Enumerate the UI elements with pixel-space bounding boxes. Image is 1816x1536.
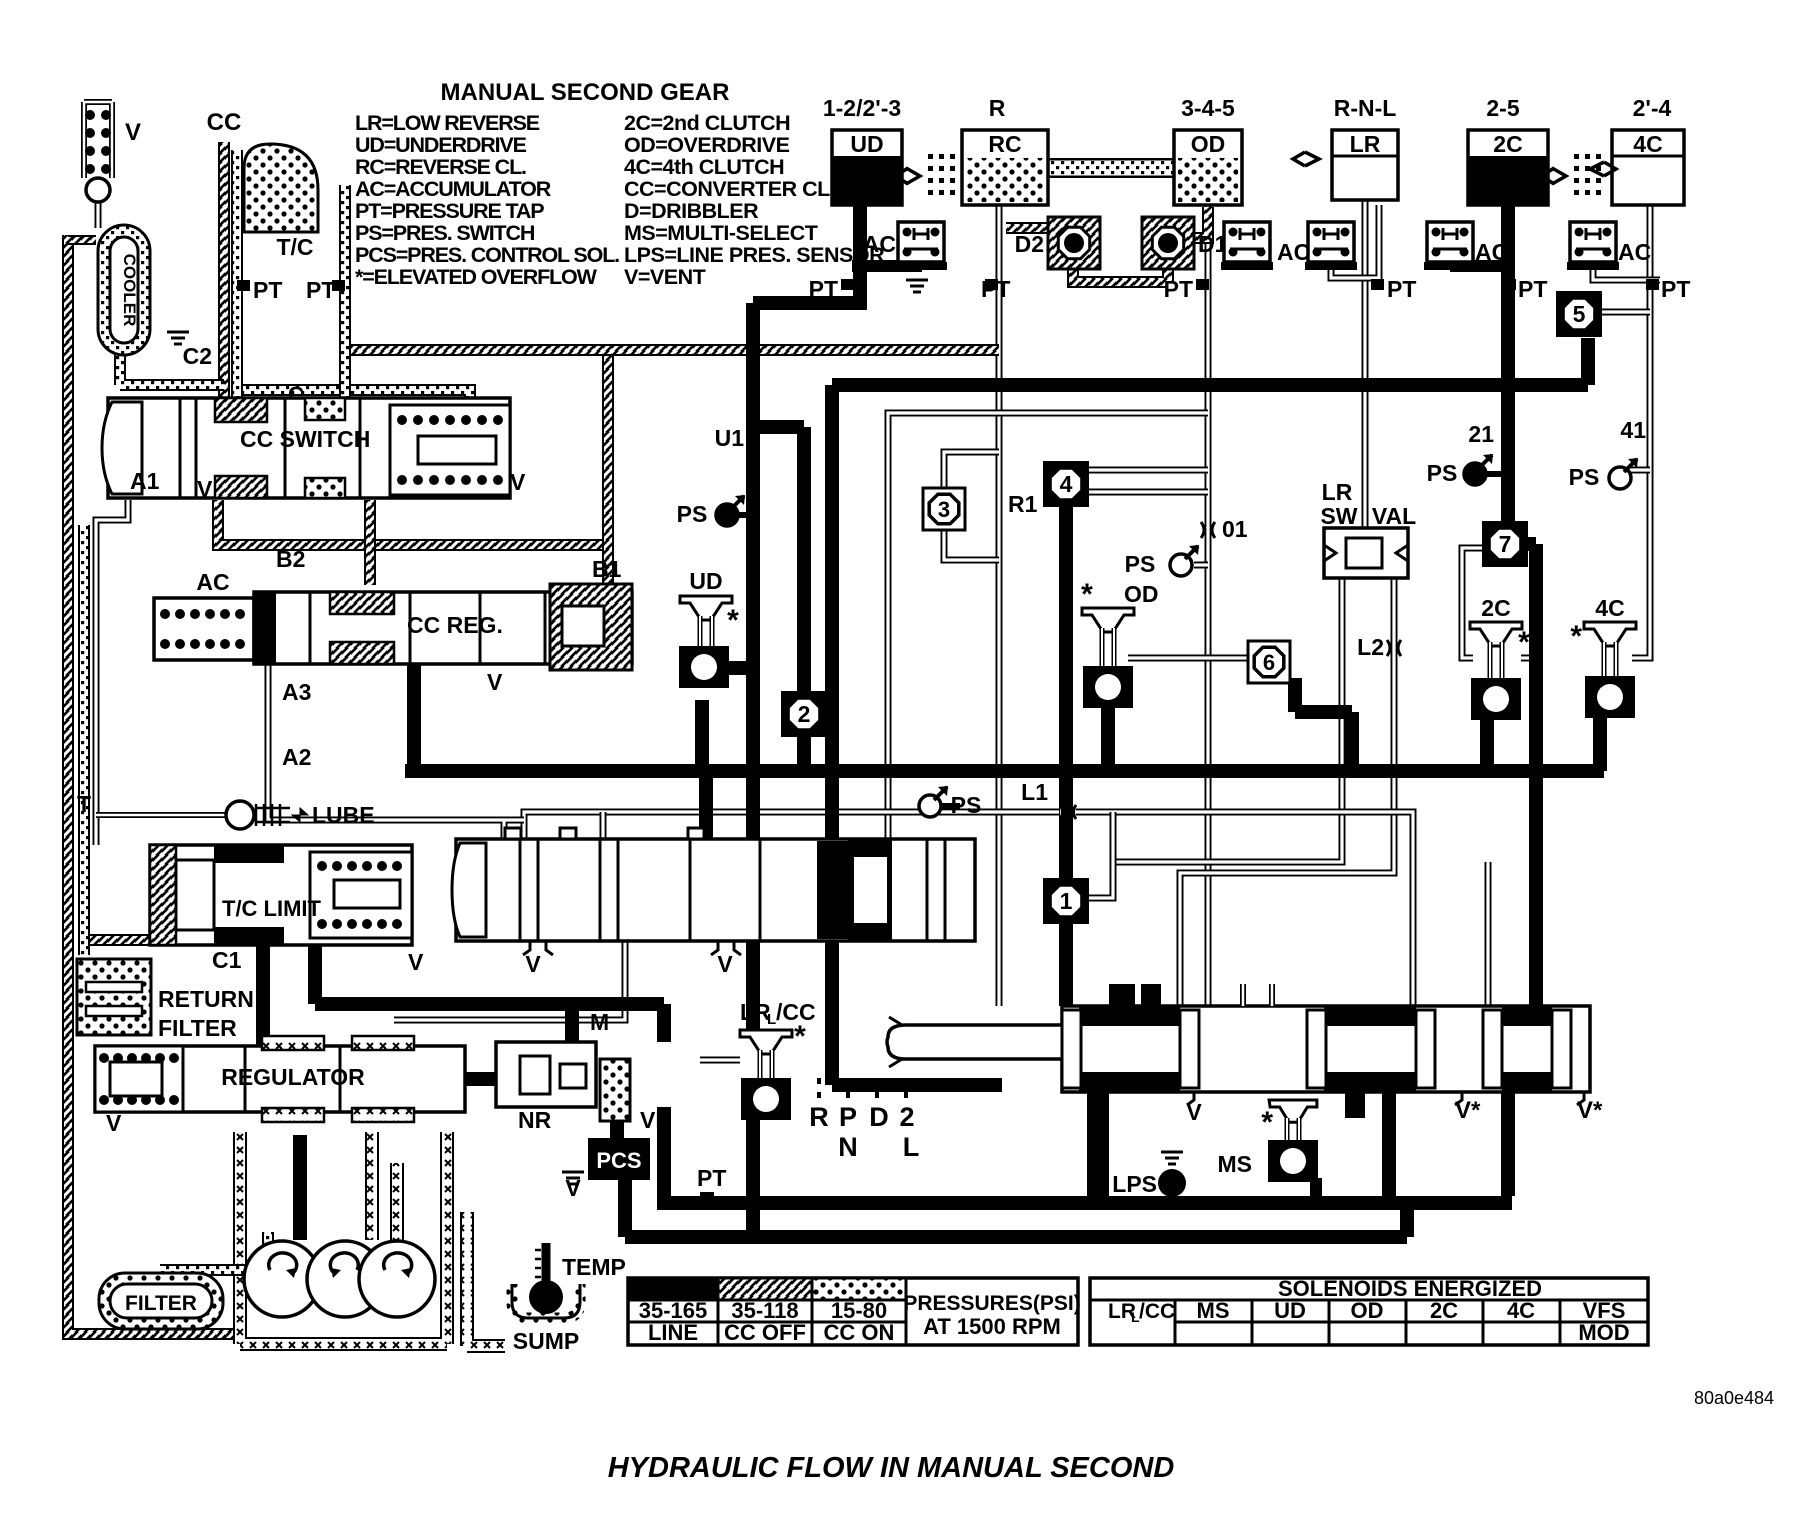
pressure switch at 21	[1427, 454, 1501, 486]
svg-text:UD=UNDERDRIVE: UD=UNDERDRIVE	[355, 133, 527, 157]
hatched B1 riser	[602, 545, 614, 585]
svg-text:SW: SW	[1320, 503, 1357, 529]
svg-text:RC=REVERSE CL.: RC=REVERSE CL.	[355, 155, 526, 179]
orifice 01	[1201, 522, 1215, 538]
svg-text:PT: PT	[306, 277, 335, 303]
svg-text:OD: OD	[1351, 1298, 1384, 1323]
wire ball4 to OD column upper	[1084, 467, 1208, 474]
suction channel pump feed	[365, 1132, 379, 1240]
svg-text:2C=2nd CLUTCH: 2C=2nd CLUTCH	[624, 111, 790, 135]
wire 41 column from 4C box	[1632, 205, 1650, 658]
wire ball3 loop	[944, 452, 999, 560]
svg-text:NR: NR	[518, 1107, 552, 1133]
svg-text:PS: PS	[1125, 551, 1156, 577]
pressure switch at L1	[919, 786, 981, 818]
svg-text:COOLER: COOLER	[120, 254, 139, 327]
svg-text:L1: L1	[1021, 779, 1048, 805]
checkball 7	[1482, 521, 1528, 567]
svg-text:M: M	[590, 1009, 609, 1035]
svg-text:2C: 2C	[1430, 1298, 1458, 1323]
thick regulator to line1	[657, 1107, 671, 1203]
stippled cooler to C2 channel	[120, 355, 224, 385]
vent under AC	[906, 280, 928, 292]
thick 2C funnel output	[1480, 718, 1494, 771]
svg-text:PT: PT	[697, 1165, 726, 1191]
svg-text:80a0e484: 80a0e484	[1694, 1388, 1774, 1408]
svg-text:MS=MULTI-SELECT: MS=MULTI-SELECT	[624, 221, 818, 245]
svg-text:PT=PRESSURE TAP: PT=PRESSURE TAP	[355, 199, 544, 223]
wire RC-OD orifice connector	[1048, 158, 1174, 178]
valve REGULATOR	[95, 1046, 465, 1112]
svg-text:LR: LR	[1322, 479, 1353, 505]
thick line A through valve to LRL/CC	[746, 936, 760, 1030]
stippled filter inlet loop	[160, 1232, 268, 1270]
wire L2 right branch	[1180, 578, 1394, 1006]
svg-text:6: 6	[1263, 650, 1275, 675]
svg-text:1: 1	[1060, 888, 1073, 914]
wire loop manual valve right	[1485, 862, 1492, 1006]
stippled T/C chamber left wall	[231, 150, 243, 398]
svg-text:LUBE: LUBE	[312, 802, 375, 828]
accumulator AC 4th	[1305, 222, 1357, 270]
thick switch valve feed stubs	[699, 771, 713, 845]
svg-text:R: R	[989, 95, 1006, 121]
svg-text:LINE: LINE	[648, 1320, 698, 1345]
hatched dribbler D2 branch	[1006, 228, 1168, 282]
manual valve top ports	[1109, 984, 1135, 1008]
hatched B2 down branch	[364, 500, 376, 585]
svg-text:R-N-L: R-N-L	[1334, 95, 1397, 121]
thick ball2 output	[797, 730, 811, 771]
wire L1 line	[524, 812, 1413, 1006]
switch valve bottom tabs	[523, 941, 553, 955]
M check block	[496, 1042, 596, 1107]
svg-text:/CC: /CC	[1139, 1300, 1175, 1323]
svg-text:R: R	[809, 1102, 829, 1132]
svg-text:*: *	[1518, 626, 1530, 659]
T/C converter dome	[244, 144, 318, 232]
svg-text:L: L	[903, 1132, 920, 1162]
svg-text:V: V	[125, 119, 141, 146]
svg-text:2-5: 2-5	[1486, 95, 1519, 121]
wire ball1 loop	[1085, 812, 1113, 898]
thick regulator pump feed	[293, 1135, 307, 1240]
svg-text:*: *	[1261, 1106, 1273, 1139]
svg-text:AC: AC	[1475, 239, 1508, 265]
selector tick marks	[819, 1078, 906, 1098]
pressure switch at U1	[677, 495, 753, 527]
pump circles	[244, 1241, 320, 1317]
svg-text:UD: UD	[689, 568, 722, 594]
valve CC REG	[254, 592, 632, 664]
svg-text:4C: 4C	[1595, 595, 1624, 621]
thick 4C funnel output	[1593, 716, 1607, 771]
svg-text:PRESSURES(PSI): PRESSURES(PSI)	[903, 1292, 1080, 1315]
svg-text:MS: MS	[1218, 1151, 1253, 1177]
thick switch valve bottom to manual valve	[832, 936, 1002, 1085]
accumulator AC at 4C	[1567, 222, 1619, 270]
svg-text:P: P	[839, 1102, 857, 1132]
lube check valve	[96, 812, 228, 818]
wire UD/OD crossover line	[888, 413, 1208, 839]
svg-text:1-2/2'-3: 1-2/2'-3	[823, 95, 901, 121]
thick AC tee at UD	[852, 256, 922, 266]
wire switch valve stub to L1	[600, 812, 607, 839]
checkball 4	[1043, 461, 1089, 507]
pressure switch at 41	[1569, 458, 1638, 490]
svg-text:4C=4th CLUTCH: 4C=4th CLUTCH	[624, 155, 784, 179]
svg-text:C1: C1	[212, 947, 242, 973]
pressure tap notches	[841, 279, 854, 290]
thick ball1 column	[1059, 771, 1073, 1006]
thick ball4 column	[1059, 506, 1073, 771]
svg-text:CC OFF: CC OFF	[724, 1320, 806, 1345]
svg-text:AC: AC	[1277, 239, 1310, 265]
svg-text:T/C LIMIT: T/C LIMIT	[222, 896, 322, 921]
clutch RC	[962, 130, 1048, 205]
thick 7 ball output column	[1526, 544, 1536, 1006]
svg-text:AC=ACCUMULATOR: AC=ACCUMULATOR	[355, 177, 552, 201]
LPS sensor	[1161, 1152, 1183, 1164]
svg-text:PT: PT	[809, 276, 838, 302]
accumulator AC at UD	[895, 222, 947, 270]
valve solenoid switch	[456, 839, 975, 941]
svg-text:AC: AC	[1618, 239, 1651, 265]
thick regulator output to check block	[465, 1072, 496, 1086]
svg-text:PT: PT	[981, 276, 1010, 302]
svg-text:B1: B1	[592, 556, 622, 582]
svg-text:MS: MS	[1197, 1298, 1230, 1323]
svg-text:PS: PS	[1569, 464, 1600, 490]
wire AC at 4C tee	[1593, 270, 1660, 280]
svg-text:D2: D2	[1015, 231, 1044, 257]
hatched B1 to dribbler run	[602, 350, 614, 545]
hatched cooler link	[68, 235, 96, 245]
svg-text:C2: C2	[183, 343, 212, 369]
suction channel filter loop	[240, 1132, 447, 1344]
svg-text:CC SWITCH: CC SWITCH	[240, 426, 370, 452]
manual valve stem	[887, 1025, 1066, 1059]
svg-text:V*: V*	[1577, 1097, 1603, 1124]
svg-text:V: V	[1186, 1099, 1202, 1125]
thick OD funnel output	[1101, 706, 1115, 771]
thick manual valve drain bar	[1087, 1092, 1109, 1196]
svg-text:SOLENOIDS ENERGIZED: SOLENOIDS ENERGIZED	[1278, 1276, 1542, 1301]
wire OD funnel link to ball6	[1128, 655, 1249, 662]
svg-text:OD=OVERDRIVE: OD=OVERDRIVE	[624, 133, 790, 157]
svg-text:LPS: LPS	[1112, 1171, 1157, 1197]
thick ball6 drop	[1295, 678, 1352, 771]
thick LRL/CC drain	[746, 1115, 760, 1237]
svg-text:AT 1500 RPM: AT 1500 RPM	[923, 1314, 1061, 1339]
thick main line	[405, 764, 1604, 778]
wire LR column	[1362, 200, 1369, 528]
svg-text:*: *	[1081, 578, 1093, 611]
accumulator AC at LR	[1424, 222, 1476, 270]
clutch OD	[1174, 130, 1242, 205]
thick 21 column	[1501, 385, 1515, 524]
stippled C2 run to C port	[237, 390, 470, 420]
svg-text:3: 3	[938, 497, 950, 522]
hatched CC supply down to CC switch	[218, 142, 230, 398]
svg-text:PS=PRES. SWITCH: PS=PRES. SWITCH	[355, 221, 535, 245]
svg-text:5: 5	[1573, 301, 1586, 327]
svg-text:V: V	[487, 669, 503, 695]
solenoid 2C	[1468, 130, 1548, 205]
checkball 5	[1556, 291, 1602, 337]
valve LR switch	[1324, 528, 1408, 578]
svg-text:PCS=PRES. CONTROL SOL.: PCS=PRES. CONTROL SOL.	[355, 243, 619, 267]
svg-text:V: V	[525, 951, 541, 977]
svg-text:LR=LOW REVERSE: LR=LOW REVERSE	[355, 111, 540, 135]
orifice L2	[1387, 640, 1401, 656]
svg-text:V: V	[106, 1110, 122, 1136]
wire ball4 to OD column lower	[1084, 489, 1208, 496]
thick manual valve U drain left	[1382, 1092, 1396, 1196]
thick upper distribution line y385	[832, 338, 1588, 839]
nozzle at 4C	[1590, 162, 1616, 176]
svg-text:4C: 4C	[1507, 1298, 1535, 1323]
svg-text:V: V	[408, 949, 424, 975]
svg-text:PS: PS	[951, 792, 982, 818]
svg-text:V: V	[510, 469, 526, 495]
checkball 3	[923, 488, 965, 530]
return filter	[77, 959, 151, 1035]
thick line2	[625, 1178, 1407, 1237]
svg-text:PT: PT	[1661, 276, 1690, 302]
wire 2C funnel right to valve column	[1521, 655, 1536, 662]
svg-text:2: 2	[798, 701, 811, 727]
hatched left margin loop	[68, 235, 240, 1334]
svg-text:4: 4	[1060, 471, 1073, 497]
svg-text:PS: PS	[677, 501, 708, 527]
svg-text:L2: L2	[1357, 634, 1384, 660]
sump cup	[512, 1284, 580, 1318]
svg-text:TEMP: TEMP	[562, 1254, 626, 1280]
svg-text:2: 2	[899, 1102, 914, 1132]
wire 5 ball to 41 column	[1602, 309, 1650, 316]
svg-text:REGULATOR: REGULATOR	[221, 1064, 365, 1090]
svg-text:D=DRIBBLER: D=DRIBBLER	[624, 199, 759, 223]
nozzle at LR	[1293, 152, 1319, 166]
wire A2/A3 to switch valve	[268, 655, 524, 839]
manual valve body	[1062, 1006, 1590, 1092]
svg-text:CC: CC	[207, 109, 242, 136]
solenoid LR	[1332, 130, 1398, 200]
wire L2 left branch	[1113, 578, 1342, 862]
wire RC column	[996, 205, 1003, 1006]
svg-text:CC REG.: CC REG.	[407, 612, 503, 638]
thick 2C solenoid column	[1501, 205, 1515, 385]
svg-text:PT: PT	[253, 277, 282, 303]
valve T/C LIMIT	[150, 845, 412, 945]
svg-text:N: N	[838, 1132, 858, 1162]
MS solenoid funnel	[1269, 1100, 1317, 1122]
wire NR loop below switch valve	[394, 941, 625, 1020]
svg-text:VAL: VAL	[1372, 503, 1416, 529]
suction channel pump feed right	[390, 1163, 404, 1240]
thick MS output	[1310, 1178, 1322, 1203]
svg-text:CC=CONVERTER CL: CC=CONVERTER CL	[624, 177, 830, 201]
stippled suction loop left	[78, 525, 90, 955]
thick M stub	[565, 1008, 579, 1042]
svg-text:UD: UD	[850, 131, 883, 157]
VF stipple block	[600, 1059, 630, 1121]
svg-text:PT: PT	[1387, 276, 1416, 302]
svg-text:PT: PT	[1164, 276, 1193, 302]
svg-text:V=VENT: V=VENT	[624, 265, 706, 289]
thick UD funnel seat link	[726, 661, 753, 675]
svg-text:RETURN: RETURN	[158, 986, 254, 1012]
svg-text:SUMP: SUMP	[513, 1328, 579, 1354]
svg-text:A3: A3	[282, 679, 311, 705]
svg-text:FILTER: FILTER	[158, 1015, 237, 1041]
svg-text:V: V	[717, 951, 733, 977]
thick CC REG output stub	[407, 650, 421, 771]
checkball 6	[1248, 641, 1290, 683]
vent dashes at C2	[167, 332, 189, 344]
svg-text:A1: A1	[130, 468, 160, 494]
spray at UD	[896, 154, 955, 195]
svg-text:D: D	[869, 1102, 889, 1132]
svg-text:2C: 2C	[1481, 595, 1510, 621]
thick T/C limit feed	[256, 940, 270, 1046]
wire A1 column to T/C limit	[96, 500, 128, 845]
svg-text:41: 41	[1620, 417, 1646, 443]
svg-text:21: 21	[1468, 421, 1494, 447]
accumulator AC at OD	[1221, 222, 1273, 270]
svg-text:B2: B2	[276, 546, 305, 572]
wire AC4 tee	[1331, 205, 1379, 278]
dribbler D1	[1142, 217, 1194, 269]
svg-text:*: *	[1570, 620, 1582, 653]
svg-text:HYDRAULIC FLOW IN MANUAL SECON: HYDRAULIC FLOW IN MANUAL SECOND	[608, 1452, 1175, 1484]
svg-text:V: V	[565, 1175, 581, 1201]
svg-text:UD: UD	[1274, 1298, 1306, 1323]
svg-text:*: *	[794, 1020, 806, 1053]
switch valve top tabs	[505, 828, 521, 839]
svg-text:PS: PS	[1427, 460, 1458, 486]
svg-text:LR: LR	[1350, 131, 1381, 157]
svg-text:T/C: T/C	[276, 234, 313, 260]
svg-text:PCS: PCS	[596, 1148, 641, 1173]
pressure legend table	[628, 1278, 1078, 1345]
svg-text:U1: U1	[715, 425, 745, 451]
thick UD solenoid output jog	[753, 200, 867, 839]
manual valve bottom port stub	[1345, 1092, 1365, 1118]
svg-text:2C: 2C	[1493, 131, 1522, 157]
pressure switch at OD col	[1125, 545, 1199, 577]
clutch 4C	[1612, 130, 1684, 205]
checkball 1	[1043, 878, 1089, 924]
svg-text:AC: AC	[196, 569, 229, 595]
vent stack top left	[84, 102, 112, 178]
svg-text:OD: OD	[1191, 131, 1226, 157]
solenoid UD	[832, 130, 902, 205]
manual valve V stubs	[1187, 1092, 1584, 1105]
svg-text:FILTER: FILTER	[125, 1292, 197, 1315]
svg-text:MANUAL SECOND GEAR: MANUAL SECOND GEAR	[441, 79, 730, 106]
svg-text:V*: V*	[1455, 1097, 1481, 1124]
thick check block to PCS	[610, 1107, 624, 1140]
suction channel sump return	[467, 1212, 505, 1346]
spray at 2C	[1542, 154, 1601, 195]
orifice L1	[1060, 805, 1076, 819]
svg-text:AC: AC	[863, 231, 896, 257]
thick UD funnel output to main	[695, 700, 709, 771]
temp thermometer	[542, 1243, 551, 1288]
stippled T/C chamber right wall	[300, 185, 345, 420]
wire OD column	[1205, 205, 1212, 1006]
svg-text:CC ON: CC ON	[824, 1320, 895, 1345]
hatched dribbler D1 to OD	[1193, 207, 1208, 238]
thick C1 header	[315, 940, 664, 1042]
checkball 2	[781, 691, 827, 737]
hatched B2 channel	[218, 500, 608, 545]
svg-text:01: 01	[1222, 516, 1248, 542]
svg-text:3-4-5: 3-4-5	[1181, 95, 1235, 121]
solenoid table	[1090, 1278, 1648, 1345]
svg-text:RC: RC	[988, 131, 1021, 157]
cooler	[98, 225, 150, 355]
svg-text:L: L	[767, 1011, 776, 1028]
wire LRL/CC inlet	[700, 1057, 740, 1064]
svg-text:A2: A2	[282, 744, 311, 770]
filter	[99, 1273, 223, 1329]
hatched converter feed run	[348, 344, 999, 356]
wire 7 ball loop to 2C funnel	[1462, 548, 1484, 658]
svg-text:T: T	[77, 791, 91, 817]
svg-text:PT: PT	[1518, 276, 1547, 302]
hatched return filter to C1	[90, 934, 218, 946]
PCS solenoid	[588, 1138, 650, 1180]
svg-text:VF: VF	[640, 1107, 669, 1133]
wire 41 PS stub	[1630, 467, 1650, 474]
wire OD PS stub	[1194, 562, 1208, 569]
svg-text:R1: R1	[1008, 491, 1038, 517]
svg-text:4C: 4C	[1633, 131, 1662, 157]
valve CC SWITCH	[108, 398, 510, 498]
thick line1	[657, 1196, 1512, 1210]
thick manual valve U drain right	[1501, 1092, 1515, 1196]
svg-text:MOD: MOD	[1578, 1320, 1629, 1345]
svg-text:OD: OD	[1124, 581, 1159, 607]
svg-text:2'-4: 2'-4	[1633, 95, 1672, 121]
svg-text:V: V	[197, 476, 213, 502]
svg-text:7: 7	[1499, 531, 1512, 557]
svg-text:LPS=LINE PRES. SENSOR: LPS=LINE PRES. SENSOR	[624, 243, 885, 267]
dribbler D2	[1048, 217, 1100, 269]
thick AC tee at 2C	[1450, 260, 1508, 272]
wire cooler vent link	[95, 200, 102, 228]
manual valve thin top ports	[1240, 984, 1246, 1006]
svg-text:*: *	[727, 604, 739, 637]
thick UD riser branch to ball2	[753, 427, 804, 695]
svg-text:*=ELEVATED OVERFLOW: *=ELEVATED OVERFLOW	[355, 265, 598, 289]
